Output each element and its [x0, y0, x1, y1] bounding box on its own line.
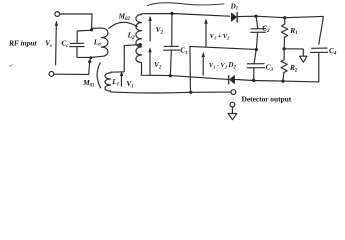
wire center tap to L1 [111, 45, 140, 73]
arrow V2 lower [149, 52, 151, 75]
arrow V1+V2 [205, 24, 207, 47]
svg-text:RF input: RF input [8, 38, 38, 47]
wire bottom rail right [235, 79, 319, 82]
capacitor C4 [311, 48, 328, 82]
arrow V1 [120, 75, 122, 87]
capacitor Cc [70, 43, 91, 57]
inductor L2 (secondary) [136, 14, 142, 63]
svg-text:V2: V2 [154, 60, 162, 70]
svg-text:V1 + V2: V1 + V2 [210, 33, 231, 40]
svg-text:D2: D2 [227, 61, 236, 70]
diode D2 [230, 76, 235, 84]
svg-text:V1: V1 [126, 79, 133, 89]
wire tap to output arrow [284, 49, 303, 56]
wire mid (C2/C3 junction to vertical) [190, 46, 256, 49]
junction C3 bottom [252, 79, 255, 82]
svg-text:R1: R1 [289, 26, 297, 36]
inductor L1 (tertiary) [105, 72, 111, 92]
input terminal bottom [49, 72, 54, 77]
svg-text:C1: C1 [180, 45, 187, 55]
svg-text:L1: L1 [111, 77, 119, 87]
output terminal 2 [230, 102, 235, 107]
inductor L0 (primary) [91, 28, 108, 57]
node N1 primary top junction [90, 28, 93, 31]
svg-text:V1 - V2: V1 - V2 [209, 62, 228, 69]
svg-text:L2: L2 [127, 30, 135, 40]
svg-text:M01: M01 [82, 78, 94, 88]
svg-text:Detector output: Detector output [242, 94, 292, 103]
svg-text:M02: M02 [118, 12, 131, 22]
svg-text:Vs: Vs [45, 38, 52, 48]
stray mark [9, 65, 12, 67]
junction lower rail [189, 91, 192, 94]
junction C2 top [254, 15, 257, 18]
wire bottom input [54, 58, 91, 75]
svg-text:V2: V2 [156, 25, 164, 35]
wire below terminal 2 [231, 107, 233, 113]
center tap node [139, 43, 142, 46]
coupling arc M01 [97, 63, 101, 88]
source arrow Vs [55, 25, 58, 65]
junction R2 bottom [281, 80, 284, 83]
wire top rail [142, 14, 230, 17]
diode D1 [231, 13, 236, 21]
svg-text:R2: R2 [289, 63, 298, 73]
junction R1 top [283, 16, 286, 19]
resistor R2 [281, 49, 287, 81]
capacitor C2 [251, 16, 266, 49]
wire N1 to Cc [77, 30, 92, 43]
capacitor C1 [164, 14, 180, 76]
annotation curve above rail [147, 3, 224, 6]
node N2 primary bottom junction [88, 60, 91, 63]
wire top input rail [60, 14, 92, 30]
svg-text:C4: C4 [329, 46, 337, 56]
svg-text:Lo: Lo [93, 37, 101, 47]
resistor R1 [282, 18, 288, 49]
svg-text:C2: C2 [262, 23, 270, 33]
output terminal 1 [231, 90, 236, 95]
output tap arrow (hollow) [300, 56, 307, 62]
output arrow below terminal 2 (hollow) [228, 113, 237, 119]
junction C1 bottom [169, 74, 172, 77]
arrow V1-V2 [202, 57, 204, 76]
svg-text:Cc: Cc [61, 39, 69, 49]
wire top rail after D1 [238, 16, 323, 44]
junction C1 top [170, 12, 173, 15]
input terminal top [55, 12, 60, 17]
wire vertical mid to lower rail [189, 46, 192, 92]
wire L2 bottom to C1 bottom to D2 [141, 62, 228, 79]
junction coil bottom [89, 56, 92, 59]
junction R1/R2 tap [283, 47, 286, 50]
svg-text:D1: D1 [230, 2, 239, 11]
junction C2 bottom [255, 48, 258, 51]
wire lower rail [111, 92, 231, 93]
svg-text:C3: C3 [266, 63, 274, 73]
arrow V2 upper [149, 21, 151, 41]
coupling arc M02 [109, 22, 137, 28]
capacitor C3 [247, 50, 264, 81]
